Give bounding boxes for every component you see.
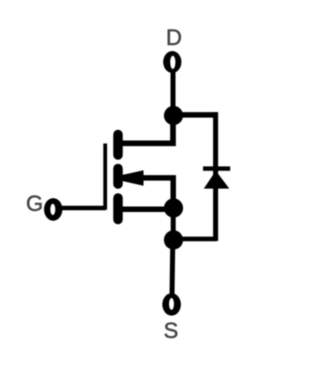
diode D1 cathode bar	[203, 166, 230, 170]
wire: drain node down to drain contact wire	[121, 112, 173, 143]
terminal S	[162, 293, 181, 315]
diode D1 (body diode, anode at source)	[204, 171, 230, 189]
wire: G terminal to gate line	[60, 206, 106, 211]
junction dot: diode return node	[164, 230, 183, 249]
MOSFET Q1 body contact bar	[113, 169, 123, 185]
svg-text:S: S	[164, 318, 179, 343]
svg-text:D: D	[166, 25, 182, 50]
wire: body arrow to source column	[140, 178, 173, 200]
terminal G	[44, 198, 62, 221]
wire: drain node to diode branch (top)	[174, 112, 219, 118]
MOSFET Q1 body arrow (points to channel)	[122, 170, 143, 185]
wire: D terminal to drain node	[171, 72, 176, 117]
wire: lower node to S terminal	[170, 240, 176, 296]
MOSFET Q1 drain contact bar	[113, 135, 123, 156]
MOSFET Q1 gate line	[103, 144, 107, 210]
wire: source node to lower node	[171, 208, 176, 240]
wire: lower node to diode branch (bottom)	[174, 237, 217, 242]
junction dot: source node	[164, 198, 183, 217]
wire: source contact bar to source node	[121, 207, 170, 213]
terminal D	[163, 51, 181, 73]
junction dot: drain node	[164, 106, 183, 125]
MOSFET Q1 source contact bar	[113, 198, 123, 220]
svg-text:G: G	[26, 191, 43, 216]
wire: diode branch vertical	[213, 112, 218, 241]
